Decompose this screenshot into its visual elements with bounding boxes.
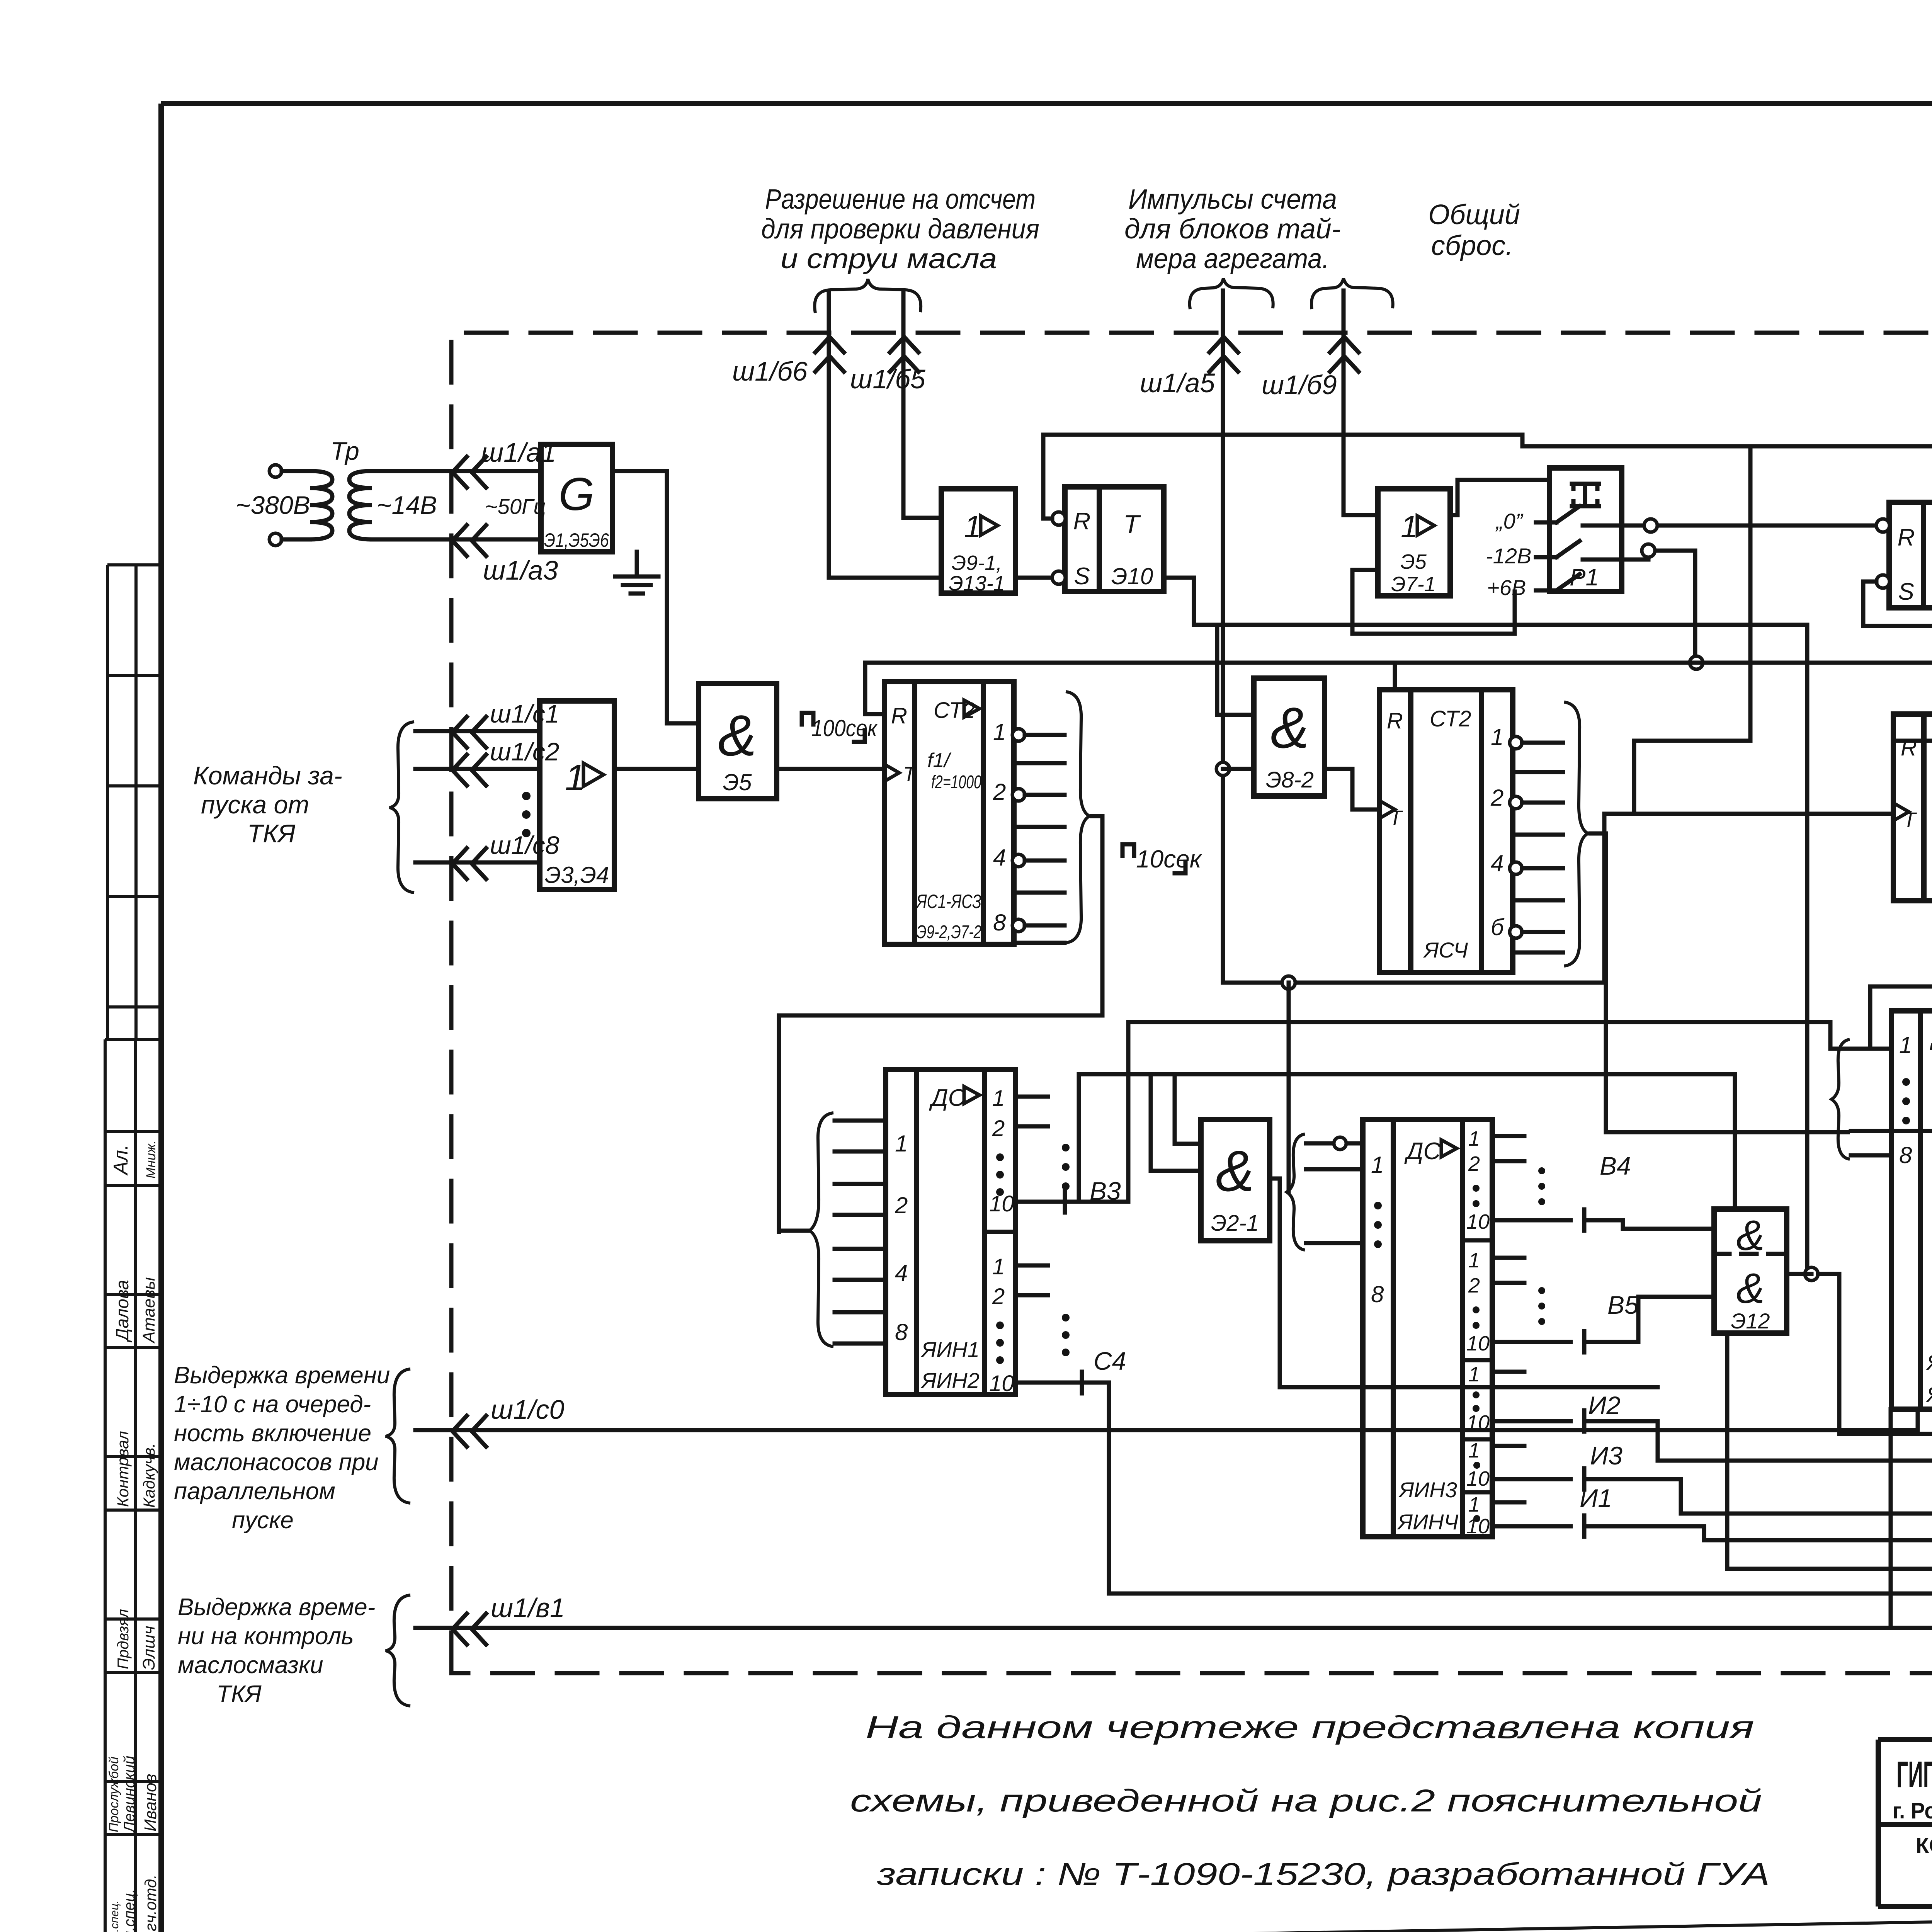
svg-text:ЯИН1: ЯИН1 [920, 1337, 980, 1362]
upper stamp cells [107, 565, 161, 1039]
svg-text:ш1/с2: ш1/с2 [490, 737, 560, 766]
svg-text:8: 8 [1371, 1281, 1384, 1307]
svg-text:ДС: ДС [1404, 1138, 1441, 1165]
svg-text:&: & [1270, 695, 1309, 760]
svg-text:Н.гч.отд.: Н.гч.отд. [141, 1874, 160, 1932]
svg-text:Прдвзял: Прдвзял [115, 1609, 132, 1669]
svg-text:ТКЯ: ТКЯ [216, 1681, 262, 1708]
svg-text:Гл.спец.: Гл.спец. [121, 1889, 138, 1932]
ЯИН5 inputs [1851, 1049, 1891, 1155]
wire ЯС1 brace to ЯИН1 inputs [779, 816, 1102, 1232]
svg-text:10: 10 [989, 1191, 1014, 1216]
svg-text:4: 4 [1491, 850, 1503, 876]
ЯИН1 input brace [810, 1113, 833, 1347]
svg-text:Т: Т [1389, 806, 1403, 830]
left stamp column [105, 565, 161, 1932]
brace [386, 1369, 410, 1503]
svg-text:б: б [1491, 914, 1505, 940]
separator [1463, 1490, 1492, 1495]
svg-text:ГИПРОСТРОЙДОРМАШ: ГИПРОСТРОЙДОРМАШ [1896, 1753, 1932, 1795]
ground [615, 552, 658, 594]
svg-text:ш1/с1: ш1/с1 [490, 699, 560, 728]
svg-text:1: 1 [992, 1254, 1005, 1279]
svg-text:ЯСЧ: ЯСЧ [1423, 938, 1468, 962]
svg-text:Э10: Э10 [1111, 563, 1153, 589]
svg-text:4: 4 [993, 845, 1006, 871]
svg-text:2: 2 [992, 1284, 1005, 1309]
gate Э12 (double AND) [1714, 1209, 1787, 1333]
svg-text:Импульсы счета: Импульсы счета [1128, 184, 1337, 215]
pulse bus horizontal [1223, 981, 1604, 985]
gate Э8-2 (AND) [1254, 678, 1325, 796]
long feed bus y2645 [1128, 1022, 1848, 1049]
gate Э2-1 (AND) [1201, 1119, 1270, 1241]
svg-text:+6В: +6В [1487, 575, 1526, 600]
right side [1634, 439, 1932, 1569]
svg-text:пуске: пуске [232, 1507, 294, 1534]
svg-text:ДС: ДС [929, 1085, 966, 1111]
overbrace w1b9 [1311, 278, 1393, 309]
svg-text:&: & [718, 703, 757, 768]
bus to B2 [1634, 446, 1750, 814]
svg-text:1: 1 [1371, 1152, 1384, 1178]
svg-text:Гл.спец.: Гл.спец. [108, 1900, 121, 1932]
svg-text:И2: И2 [1588, 1391, 1621, 1420]
svg-text:маслосмазки: маслосмазки [178, 1652, 323, 1679]
counter ЯС5 [1893, 714, 1924, 901]
wire Э2-1 input2 [1079, 1074, 1735, 1209]
wire Э10 output bus [1164, 578, 1807, 1274]
counter ЯС4 [1379, 690, 1411, 973]
svg-text:Тр: Тр [330, 437, 359, 465]
svg-text:1: 1 [1468, 1249, 1480, 1272]
wire R bus of Э10 [1043, 435, 1932, 519]
title block [1878, 1556, 1932, 1910]
pulse label 100cek [802, 713, 865, 742]
svg-text:R: R [891, 703, 907, 728]
ЯИН3 inputs [1306, 1143, 1363, 1243]
svg-text:10: 10 [989, 1371, 1014, 1396]
svg-text:2: 2 [993, 779, 1006, 805]
svg-text:4: 4 [895, 1260, 908, 1286]
buffer Э9-1,Э13-1 [941, 489, 1015, 593]
counter ЯС1-ЯС3 [884, 682, 915, 944]
svg-text:ЯИН2: ЯИН2 [920, 1368, 980, 1393]
svg-text:Общий: Общий [1428, 199, 1520, 230]
svg-text:1: 1 [1491, 724, 1503, 750]
svg-text:Т: Т [1123, 510, 1141, 539]
entry wire ш1/а5 [1221, 291, 1225, 983]
entry wire ш1/б9 [1344, 291, 1378, 515]
svg-text:ш1/б6: ш1/б6 [732, 356, 808, 386]
svg-text:Далова: Далова [112, 1280, 132, 1343]
svg-text:2: 2 [1490, 785, 1503, 811]
svg-text:Прослужбой: Прослужбой [107, 1757, 121, 1832]
svg-text:Выдержка времени: Выдержка времени [174, 1362, 390, 1389]
wire Э9-1 out to S of Э10 [1015, 576, 1053, 580]
flip-flop Э14 [1889, 502, 1923, 608]
svg-text:100сек: 100сек [811, 715, 878, 741]
svg-text:ш1/б9: ш1/б9 [1262, 370, 1337, 400]
svg-text:КОМПРЕССОРНАЯ: КОМПРЕССОРНАЯ [1916, 1833, 1932, 1857]
svg-text:S: S [1898, 578, 1914, 605]
nested return buses [1727, 1333, 1932, 1569]
svg-text:ТКЯ: ТКЯ [247, 819, 296, 848]
svg-text:&: & [1736, 1265, 1764, 1312]
svg-text:R: R [1898, 524, 1915, 551]
svg-text:Кадкучв.: Кадкучв. [140, 1443, 158, 1508]
svg-text:2: 2 [1468, 1152, 1480, 1175]
svg-text:для проверки давления: для проверки давления [761, 214, 1039, 245]
svg-text:Ал.: Ал. [110, 1145, 132, 1176]
svg-text:-12В: -12В [1486, 544, 1531, 568]
separator [985, 1230, 1015, 1234]
svg-text:1: 1 [1401, 509, 1418, 544]
svg-text:ЯИН3: ЯИН3 [1398, 1478, 1457, 1502]
ЯС4 output brace [1564, 702, 1588, 966]
middle blocks [779, 435, 1932, 1628]
svg-text:2: 2 [1468, 1274, 1480, 1297]
wire lower loop Э7-1 [1352, 570, 1515, 634]
decoder ЯИН1,ЯИН2 [886, 1070, 917, 1395]
svg-text:1÷10 с на очеред-: 1÷10 с на очеред- [174, 1391, 371, 1418]
wire G output [612, 471, 699, 723]
wire reset to ЯС4 R [1393, 663, 1397, 690]
svg-text:Э9-1,: Э9-1, [952, 551, 1002, 575]
svg-text:10: 10 [1466, 1210, 1490, 1233]
svg-text:S: S [1074, 563, 1090, 590]
wire Э2-1 output [1270, 1179, 1658, 1387]
svg-text:ность включение: ность включение [174, 1420, 371, 1447]
svg-text:Иванов: Иванов [141, 1774, 160, 1832]
decoder ЯИН5,ЯНН6 [1891, 1011, 1920, 1409]
svg-text:ЯИНЧ: ЯИНЧ [1397, 1510, 1459, 1534]
svg-text:Э9-2,Э7-2: Э9-2,Э7-2 [917, 922, 981, 942]
input brace [389, 722, 414, 893]
svg-text:R: R [1901, 735, 1917, 760]
svg-text:R: R [1387, 708, 1403, 733]
svg-text:записки : № Т-1090-15230,: записки : № Т-1090-15230, разработанной … [877, 1857, 1770, 1892]
svg-text:10: 10 [1466, 1411, 1490, 1434]
wire Э14 S loop [1851, 582, 1932, 1628]
wire Э8-2 out to ЯС4 T [1325, 769, 1379, 810]
svg-text:1: 1 [993, 719, 1006, 745]
svg-text:&: & [1216, 1138, 1254, 1203]
svg-text:г. Ростов-на-Дону 1976г.: г. Ростов-на-Дону 1976г. [1893, 1798, 1932, 1823]
svg-text:R: R [1073, 508, 1091, 535]
entry wire ш1/с8 [415, 861, 540, 865]
wire Э8-2 top input [1217, 625, 1254, 715]
svg-text:Левинский: Левинский [121, 1756, 138, 1833]
wire а5 node to Э8-2 [1223, 767, 1254, 771]
svg-text:Э12: Э12 [1731, 1309, 1770, 1333]
svg-text:~380В: ~380В [236, 491, 310, 519]
wire ЯС4 brace down [1590, 833, 1848, 1132]
svg-text:10: 10 [1466, 1467, 1490, 1490]
svg-text:ш1/б5: ш1/б5 [850, 364, 926, 394]
svg-text:10: 10 [1466, 1332, 1490, 1355]
entry wire ш1/с2 [415, 767, 540, 771]
svg-text:2: 2 [992, 1116, 1005, 1141]
flip-flop Э10 [1065, 487, 1099, 592]
svg-text:ш1/с0: ш1/с0 [491, 1395, 564, 1425]
ЯИН1 input lines [835, 1121, 886, 1344]
svg-text:~14В: ~14В [377, 491, 437, 519]
svg-text:параллельном: параллельном [174, 1478, 335, 1505]
left side components [174, 437, 1932, 1708]
block Э3,Э4 (1 buffer) [540, 701, 614, 889]
svg-text:На данном чертеже предс: На данном чертеже представлена копия [866, 1710, 1754, 1745]
entry wire ш1/в1 [415, 1409, 1932, 1628]
svg-text:мера агрегата.: мера агрегата. [1136, 243, 1329, 274]
svg-text:для блоков тай-: для блоков тай- [1124, 214, 1341, 245]
wire Э5 to CT2 [777, 767, 884, 771]
svg-text:ЯНН6: ЯНН6 [1926, 1382, 1932, 1406]
svg-text:Э8-2: Э8-2 [1266, 767, 1314, 793]
svg-text:Команды за-: Команды за- [193, 761, 342, 790]
svg-text:Э5: Э5 [723, 769, 752, 795]
brace [386, 1595, 410, 1706]
svg-text:2: 2 [895, 1192, 908, 1218]
svg-text:В4: В4 [1600, 1151, 1631, 1180]
ЯС1 output brace [1066, 692, 1090, 943]
separator [1463, 1238, 1492, 1243]
svg-text:Разрешение на отсчет: Разрешение на отсчет [765, 184, 1036, 215]
wire P1 out2 down to bus [1607, 551, 1695, 663]
svg-text:В5: В5 [1607, 1291, 1639, 1319]
separator [1463, 1358, 1492, 1362]
wire secondary to G lower ш1/а3 [372, 537, 541, 542]
svg-text:Мниж.: Мниж. [144, 1140, 158, 1179]
bottom wires and notes [850, 1014, 1932, 1892]
svg-text:8: 8 [1899, 1142, 1912, 1168]
wire Э3,Э4 to Э5 [614, 767, 699, 771]
svg-text:1: 1 [1899, 1032, 1912, 1058]
svg-text:„0”: „0” [1495, 509, 1524, 533]
overbrace w1a5 [1190, 278, 1273, 309]
entry wire ш1/с1 [415, 729, 540, 733]
svg-text:маслонасосов при: маслонасосов при [174, 1449, 379, 1476]
svg-text:1: 1 [964, 509, 981, 544]
svg-text:Э5: Э5 [1400, 550, 1427, 573]
svg-text:И3: И3 [1590, 1441, 1622, 1470]
wire P1 out to R of Э14 [1607, 524, 1876, 528]
pulse label 10cek [1122, 844, 1185, 873]
svg-text:8: 8 [993, 910, 1006, 935]
relay P1 [1549, 468, 1622, 592]
svg-text:f2=1000: f2=1000 [931, 772, 981, 793]
gate Э5 (AND) [699, 684, 777, 799]
buffer Э5,Э7-1 [1378, 489, 1450, 596]
svg-text:В3: В3 [1090, 1177, 1121, 1205]
wire secondary to G upper ш1/а1 [372, 469, 541, 473]
decoder ЯИН3,ЯИН4 [1363, 1119, 1393, 1537]
wire ЯС5 T input [1604, 814, 1893, 983]
svg-text:8: 8 [895, 1319, 908, 1345]
svg-text:Э3,Э4: Э3,Э4 [545, 862, 609, 888]
svg-text:Т: Т [1903, 808, 1917, 832]
svg-text:Элшч: Элшч [139, 1626, 158, 1670]
svg-text:1: 1 [1468, 1363, 1480, 1386]
svg-text:G: G [558, 468, 594, 520]
svg-text:пуска от: пуска от [201, 790, 309, 819]
svg-text:ш1/в1: ш1/в1 [491, 1593, 565, 1623]
separator [1463, 1437, 1492, 1442]
svg-text:ш1/а3: ш1/а3 [483, 555, 558, 585]
wire reset to ЯС1 R [865, 712, 884, 716]
svg-text:1: 1 [1468, 1127, 1480, 1150]
svg-text:ЯИН5: ЯИН5 [1926, 1350, 1932, 1374]
svg-text:ш1/а5: ш1/а5 [1140, 368, 1215, 398]
overbrace w1b6/b5 [815, 279, 921, 313]
entry wire ш1/б6 [829, 292, 941, 578]
top annotations [732, 184, 1520, 983]
svg-text:1: 1 [1468, 1493, 1480, 1516]
wire Э12 output [1787, 1274, 1932, 1434]
svg-text:сброс.: сброс. [1431, 230, 1514, 261]
P1 contacts [1556, 506, 1607, 592]
wire Э5,Э7-1 to P1 [1450, 480, 1549, 515]
svg-text:Выдержка време-: Выдержка време- [178, 1594, 375, 1621]
svg-text:Т: Т [903, 763, 917, 786]
dashed device boundary [451, 333, 1932, 1673]
svg-text:и струи масла: и струи масла [781, 243, 997, 274]
svg-text:Э13-1: Э13-1 [949, 572, 1005, 595]
svg-text:И1: И1 [1580, 1484, 1612, 1512]
wire pulse bus to ЯИН3 brace [1287, 983, 1291, 1192]
svg-text:Контрвал: Контрвал [114, 1431, 132, 1507]
dots between inputs [522, 792, 531, 800]
entry wire ш1/с0 [415, 1409, 1918, 1430]
svg-text:ЯС1-ЯСЗ: ЯС1-ЯСЗ [916, 891, 981, 912]
svg-text:1: 1 [992, 1086, 1005, 1111]
svg-text:Э1,Э5Э6: Э1,Э5Э6 [544, 529, 609, 551]
svg-text:1: 1 [1468, 1439, 1480, 1462]
svg-text:Атаевы: Атаевы [139, 1277, 158, 1344]
block G (generator) [541, 444, 612, 552]
svg-text:С4: С4 [1094, 1347, 1126, 1375]
svg-text:10: 10 [1466, 1515, 1490, 1538]
svg-text:ни на контроль: ни на контроль [178, 1623, 354, 1650]
wire ЯС5 brace down to ЯИН5 [1870, 808, 1932, 1049]
svg-text:&: & [1736, 1212, 1764, 1259]
svg-text:Э7-1: Э7-1 [1391, 573, 1436, 596]
svg-text:f1/: f1/ [927, 749, 951, 772]
entry wire ш1/б5 [903, 292, 941, 518]
svg-text:1: 1 [895, 1131, 908, 1156]
svg-text:СТ2: СТ2 [1430, 706, 1471, 731]
svg-text:схемы, приведенной на: схемы, приведенной на рис.2 пояснительно… [850, 1783, 1762, 1818]
svg-text:Э2-1: Э2-1 [1211, 1211, 1259, 1236]
svg-text:~50Гц: ~50Гц [485, 494, 546, 519]
svg-text:10сек: 10сек [1136, 845, 1202, 873]
reset bus [865, 663, 1932, 741]
